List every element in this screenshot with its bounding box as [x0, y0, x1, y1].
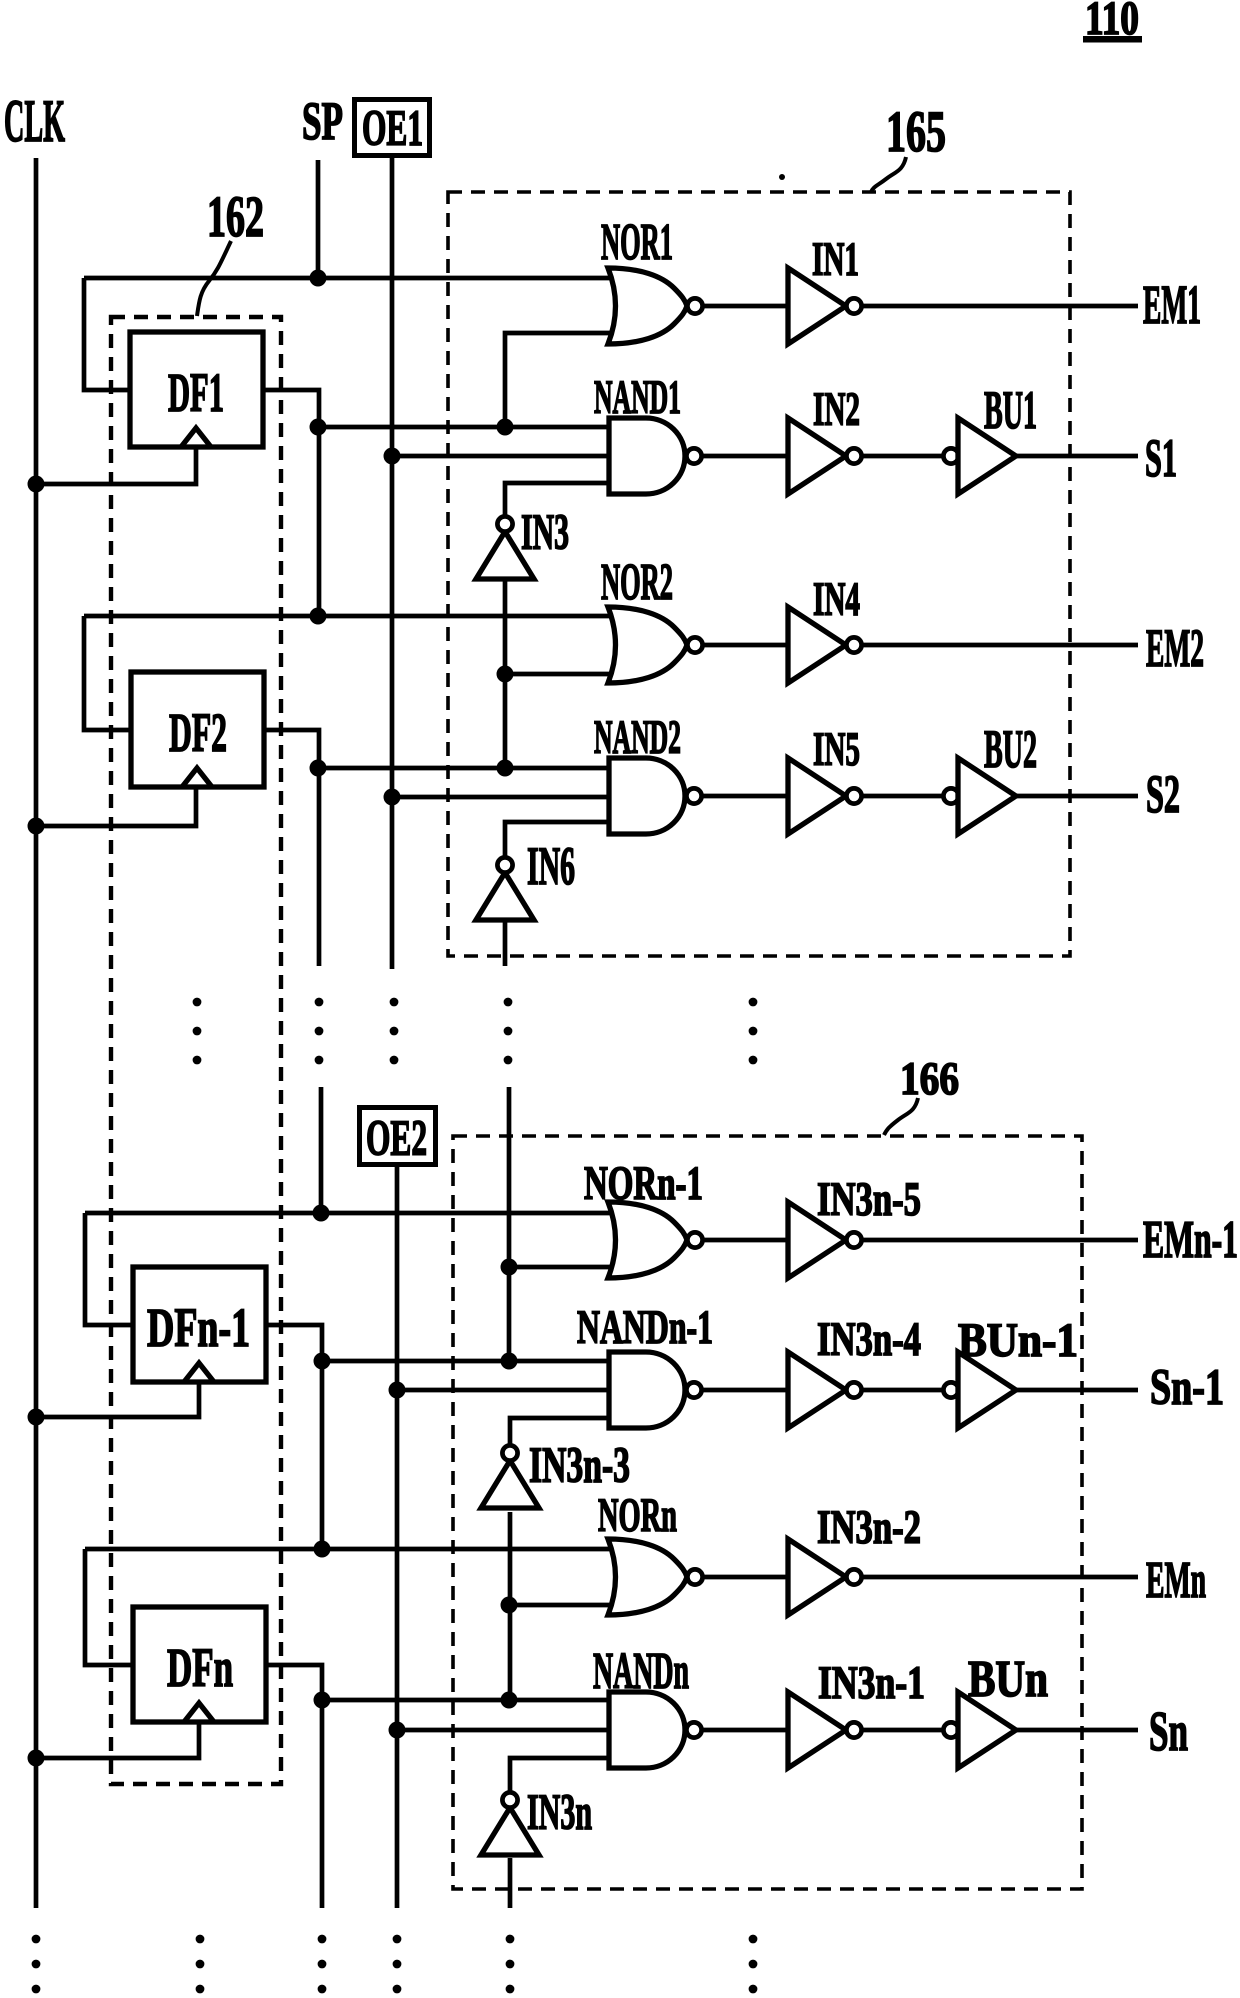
junction SP chain row [313, 1205, 330, 1222]
buffer BU2 [943, 758, 1016, 834]
gate block dashed box 166 [453, 1136, 1082, 1889]
label IN3n-2 [817, 1501, 921, 1554]
wire OE1 to NAND1 input B [392, 454, 614, 459]
ellipsis dots middle [193, 998, 758, 1065]
wire row corner down to DFn-1 D input [85, 1213, 134, 1325]
leader line 166 [884, 1098, 918, 1135]
wire NOR2 output to IN4 [701, 643, 790, 648]
wire NANDn-1 output to IN3n-4 [701, 1388, 790, 1393]
svg-text:IN3n-3: IN3n-3 [529, 1438, 630, 1494]
wire row corner down to DFn D input [85, 1549, 134, 1665]
ink speck [779, 174, 785, 180]
wire NAND1 output to IN2 [701, 454, 790, 459]
svg-text:NOR2: NOR2 [601, 554, 673, 611]
svg-text:IN2: IN2 [813, 383, 860, 436]
wire NAND2 output to IN5 [701, 794, 790, 799]
label EMn [1146, 1552, 1206, 1609]
junction DFn.Q row [314, 1692, 331, 1709]
wire OE1 to NAND2 input B [392, 795, 614, 800]
wire DF chain vertical resume x509 [507, 1087, 512, 1361]
gate block dashed box 165 [448, 192, 1070, 956]
wire row DFn.Q to NANDn input A [322, 1698, 614, 1703]
svg-text:S1: S1 [1145, 428, 1177, 488]
label BU1 [984, 380, 1037, 440]
svg-text:NANDn-1: NANDn-1 [577, 1301, 713, 1354]
label IN1 [812, 233, 859, 286]
svg-text:NORn-1: NORn-1 [584, 1157, 703, 1210]
svg-text:NORn: NORn [598, 1489, 677, 1542]
flip-flop DF2 [131, 672, 264, 787]
junction CLK-DFn clock [28, 1750, 45, 1767]
label IN4 [813, 573, 860, 626]
svg-text:S2: S2 [1146, 764, 1180, 824]
svg-text:NANDn: NANDn [593, 1643, 689, 1700]
wire IN6 input vertical [503, 919, 508, 966]
svg-text:IN1: IN1 [812, 233, 859, 286]
wire BUn output to Sn [1016, 1728, 1138, 1733]
label CLK [4, 88, 65, 154]
label IN2 [813, 383, 860, 436]
junction DFn-1.Q row2 [314, 1541, 331, 1558]
svg-text:BUn-1: BUn-1 [958, 1314, 1078, 1367]
NAND gate NAND2 [609, 758, 702, 834]
wire row to NORn-1 input A [85, 1211, 614, 1216]
wire IN3n-5 output to EMn-1 [861, 1238, 1138, 1243]
svg-text:EMn-1: EMn-1 [1143, 1211, 1238, 1269]
wire row2 corner down to DF2 D input [84, 616, 132, 730]
label S2 [1146, 764, 1180, 824]
wire NOR1 output to IN1 [701, 304, 790, 309]
wire OE2 to NANDn input B [397, 1728, 614, 1733]
wire branch to NORn-1 input B [509, 1265, 614, 1270]
OE2 input box [360, 1108, 436, 1168]
wire row DF2.Q to NAND2 input A [319, 766, 614, 771]
svg-text:DF1: DF1 [168, 362, 224, 423]
junction OE1 NAND2 [384, 789, 401, 806]
wire IN3n input vertical [508, 1858, 513, 1908]
wire NAND1 input C stub to IN3 [505, 483, 614, 517]
inverter IN4 [788, 607, 862, 683]
label IN3n-1 [818, 1657, 925, 1709]
label 110 underlined [1083, 0, 1142, 45]
inverter IN2 [788, 418, 862, 494]
label EM2 [1146, 618, 1204, 678]
wire SP chain vertical resume [319, 1087, 324, 1213]
label NAND2 [594, 711, 681, 764]
junction SP row1 [310, 270, 327, 287]
junction NOR1 branch [497, 419, 514, 436]
label EMn-1 [1143, 1211, 1238, 1269]
wire row DFn-1.Q to NANDn-1 input A [322, 1359, 614, 1364]
junction CLK-DFn-1 clock [28, 1409, 45, 1426]
svg-text:DFn: DFn [167, 1637, 233, 1698]
label IN6 [527, 836, 575, 896]
label IN3n-5 [817, 1173, 921, 1226]
label BU2 [984, 719, 1037, 779]
label NORn-1 [584, 1157, 703, 1210]
junction OE1 NAND1 [384, 448, 401, 465]
svg-text:DF2: DF2 [169, 702, 227, 763]
wire IN2 output to BU1 [861, 454, 946, 459]
wire NORn-1 output to IN3n-5 [701, 1238, 790, 1243]
label Sn-1 [1150, 1360, 1224, 1416]
svg-text:CLK: CLK [4, 88, 65, 154]
inverter IN5 [788, 758, 862, 834]
junction DFn-1.Q row [314, 1353, 331, 1370]
svg-text:NOR1: NOR1 [601, 214, 673, 271]
wire DFn clock stub to CLK [36, 1722, 199, 1758]
wire SP row corner down to DF1 D input [84, 278, 131, 390]
label IN5 [813, 723, 860, 776]
junction OE2 NANDn-1 [389, 1382, 406, 1399]
svg-text:IN3n: IN3n [527, 1785, 592, 1841]
wire row SP to NOR1 input A [84, 276, 614, 281]
NAND gate NANDn [609, 1692, 702, 1768]
wire row to NORn input A [85, 1547, 614, 1552]
NOR gate NORn-1 [608, 1202, 703, 1278]
NAND gate NAND1 [609, 418, 702, 494]
label NOR2 [601, 554, 673, 611]
label NANDn [593, 1643, 689, 1700]
label IN3n-4 [817, 1313, 921, 1366]
svg-text:IN3n-4: IN3n-4 [817, 1313, 921, 1366]
inverter IN3n [481, 1792, 539, 1855]
flip-flop DFn [133, 1607, 266, 1722]
wire branch to NOR2 input B [505, 672, 614, 677]
wire DFn Q output to vertical [266, 1665, 322, 1908]
wire OE2 vertical [395, 1167, 400, 1908]
wire IN3n-3 input vertical [508, 1512, 513, 1700]
label SP [302, 91, 343, 151]
svg-text:NAND1: NAND1 [594, 371, 681, 424]
wire SP vertical [316, 160, 321, 278]
wire IN4 output to EM2 [861, 643, 1138, 648]
OE1 input box [355, 100, 430, 158]
svg-text:SP: SP [302, 91, 343, 151]
svg-text:166: 166 [900, 1053, 959, 1105]
svg-text:EMn: EMn [1146, 1552, 1206, 1609]
wire DF1 Q output to vertical [263, 390, 319, 616]
wire row DF1.Q to NAND1 input A [319, 425, 614, 430]
ellipsis dots bottom [32, 1935, 758, 1994]
inverter IN1 [788, 268, 862, 344]
inverter IN3n-3 [481, 1445, 539, 1508]
label 165 [886, 99, 946, 164]
wire OE1 vertical [390, 158, 395, 969]
wire IN3n-2 output to EMn [861, 1575, 1138, 1580]
svg-text:IN3n-2: IN3n-2 [817, 1501, 921, 1554]
wire OE2 to NANDn-1 input B [397, 1388, 614, 1393]
junction IN3 line NAND2 row [497, 760, 514, 777]
label NORn [598, 1489, 677, 1542]
wire NANDn output to IN3n-1 [701, 1728, 790, 1733]
label NAND1 [594, 371, 681, 424]
wire NORn output to IN3n-2 [701, 1575, 790, 1580]
wire DFn-1 clock stub to CLK [36, 1382, 199, 1417]
svg-text:BUn: BUn [968, 1651, 1048, 1708]
wire NANDn input C stub to IN3n [510, 1758, 614, 1793]
wire IN1 output to EM1 [861, 304, 1138, 309]
flip-flop block dashed box 162 [111, 317, 281, 1784]
label IN3n [527, 1785, 592, 1841]
svg-text:BU2: BU2 [984, 719, 1037, 779]
wire NAND2 input C stub to IN6 [505, 822, 614, 858]
svg-text:Sn: Sn [1149, 1701, 1188, 1763]
leader line 162 [197, 241, 231, 316]
svg-text:Sn-1: Sn-1 [1150, 1360, 1224, 1416]
buffer BUn-1 [943, 1352, 1016, 1428]
svg-text:IN6: IN6 [527, 836, 575, 896]
svg-text:NAND2: NAND2 [594, 711, 681, 764]
svg-text:EM2: EM2 [1146, 618, 1204, 678]
svg-text:IN3n-5: IN3n-5 [817, 1173, 921, 1226]
junction IN3n-3 line NANDn row [501, 1692, 518, 1709]
label 162 [207, 184, 264, 249]
svg-text:IN5: IN5 [813, 723, 860, 776]
label IN3 [521, 505, 569, 561]
label 166 [900, 1053, 959, 1105]
NOR gate NORn [608, 1539, 703, 1615]
inverter IN6 [476, 857, 534, 920]
wire IN3n-4 output to BUn-1 [861, 1388, 946, 1393]
wire IN5 output to BU2 [861, 794, 946, 799]
junction OE2 NANDn [389, 1722, 406, 1739]
junction DF2.Q row [310, 760, 327, 777]
wire CLK vertical bus [34, 158, 39, 1908]
wire DF2 Q output to vertical [264, 730, 319, 966]
wire row 2 to NOR2 input A [84, 614, 614, 619]
label BUn-1 [958, 1314, 1078, 1367]
inverter IN3 [476, 516, 534, 579]
inverter IN3n-4 [788, 1352, 862, 1428]
inverter IN3n-2 [788, 1539, 862, 1615]
label EM1 [1143, 274, 1201, 335]
wire branch to NORn input B [510, 1603, 614, 1608]
svg-text:162: 162 [207, 184, 264, 249]
inverter IN3n-5 [788, 1202, 862, 1278]
junction NOR2 branch [497, 666, 514, 683]
inverter IN3n-1 [788, 1692, 862, 1768]
flip-flop DFn-1 [133, 1267, 266, 1382]
svg-text:EM1: EM1 [1143, 274, 1201, 335]
label NANDn-1 [577, 1301, 713, 1354]
wire BUn-1 output to Sn-1 [1016, 1388, 1138, 1393]
wire NANDn-1 input C stub to IN3n-3 [510, 1418, 614, 1446]
svg-text:IN4: IN4 [813, 573, 860, 626]
svg-text:OE2: OE2 [366, 1111, 427, 1167]
wire DF1 clock stub to CLK [36, 447, 196, 484]
svg-text:DFn-1: DFn-1 [147, 1297, 250, 1358]
NOR gate NOR2 [608, 607, 703, 683]
NOR gate NOR1 [608, 268, 703, 344]
label Sn [1149, 1701, 1188, 1763]
svg-text:BU1: BU1 [984, 380, 1037, 440]
wire BU1 output to S1 [1016, 454, 1138, 459]
junction NORn branch [501, 1597, 518, 1614]
wire BU2 output to S2 [1016, 794, 1138, 799]
label IN3n-3 [529, 1438, 630, 1494]
wire IN3n-1 output to BUn [861, 1728, 946, 1733]
label NOR1 [601, 214, 673, 271]
svg-text:OE1: OE1 [362, 101, 423, 157]
svg-text:165: 165 [886, 99, 946, 164]
wire IN3 input vertical [503, 578, 508, 768]
junction CLK-DF2 clock [28, 818, 45, 835]
flip-flop DF1 [130, 332, 263, 447]
wire DFn-1 Q output to vertical [266, 1325, 322, 1549]
label S1 [1145, 428, 1177, 488]
buffer BUn [943, 1692, 1016, 1768]
label BUn [968, 1651, 1048, 1708]
buffer BU1 [943, 418, 1016, 494]
svg-text:IN3n-1: IN3n-1 [818, 1657, 925, 1709]
svg-text:IN3: IN3 [521, 505, 569, 561]
leader line 165 [871, 157, 906, 192]
junction DF1.Q row2 [310, 608, 327, 625]
junction x509 NANDn-1 row [501, 1353, 518, 1370]
junction DF1.Q row [310, 419, 327, 436]
wire DF2 clock stub to CLK [36, 787, 196, 826]
junction NORn-1 branch [501, 1259, 518, 1276]
NAND gate NANDn-1 [609, 1352, 702, 1428]
junction CLK-DF1 clock [28, 476, 45, 493]
wire branch up to NOR1 input B [505, 333, 614, 427]
